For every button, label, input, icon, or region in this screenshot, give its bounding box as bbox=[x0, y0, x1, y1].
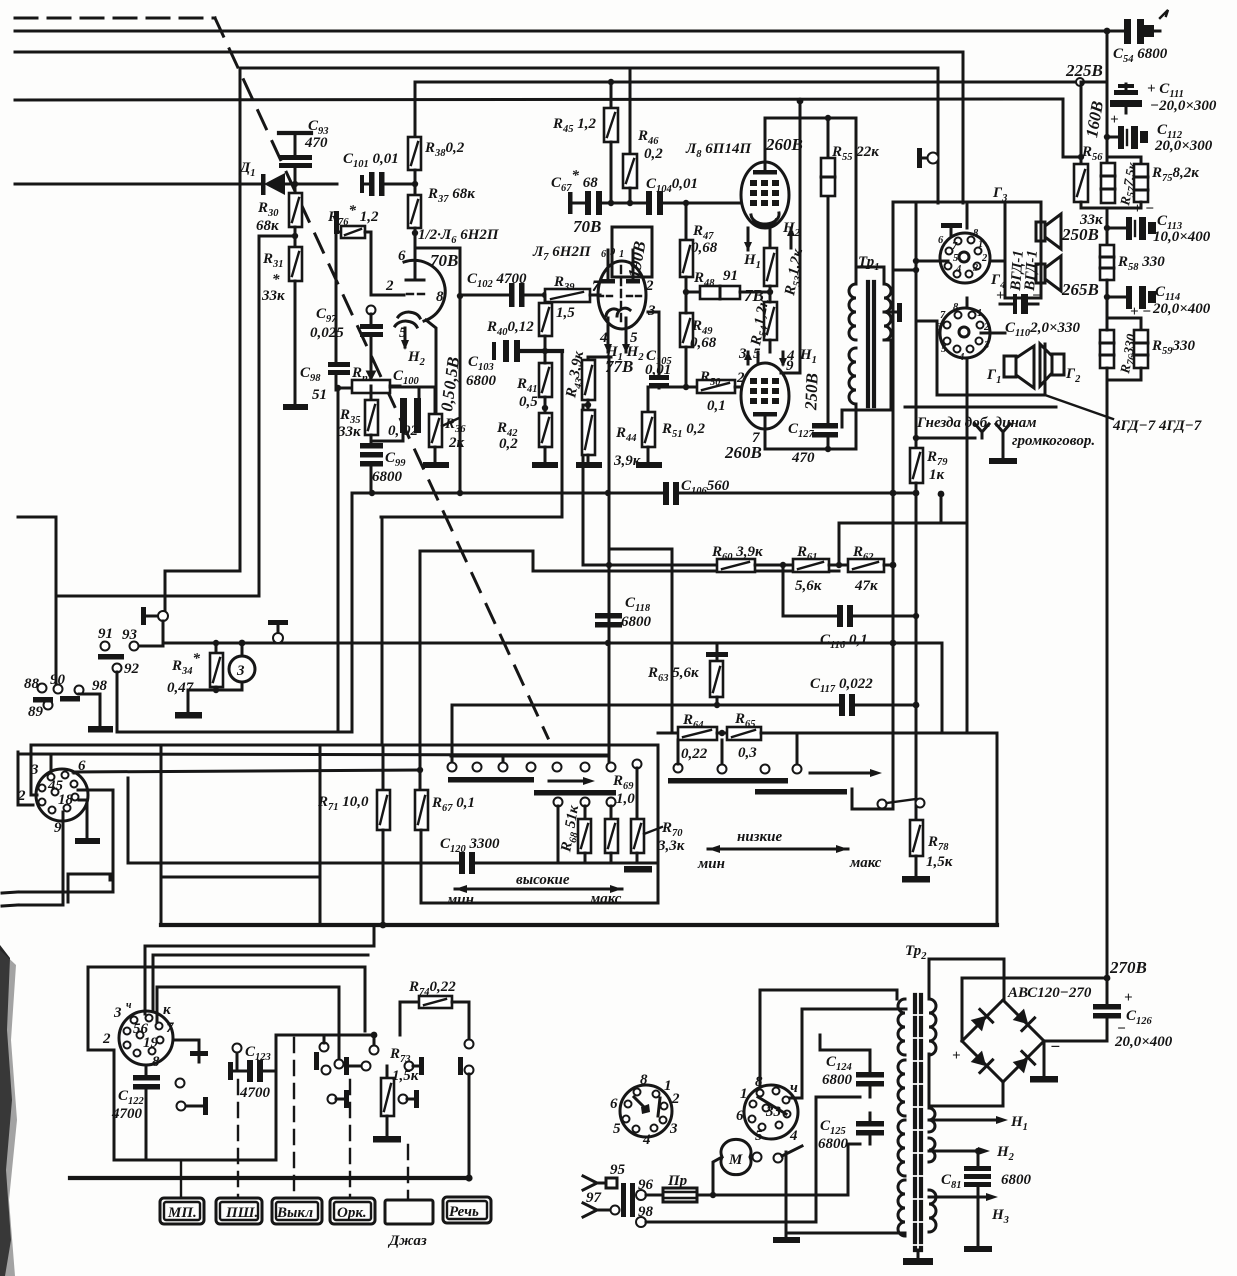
svg-text:1,5: 1,5 bbox=[556, 305, 575, 321]
pointer line 4GD-7 bbox=[905, 406, 1056, 409]
wire staircase y549/y571 bbox=[420, 551, 839, 571]
resistor R47 bbox=[680, 203, 693, 292]
svg-text:3: 3 bbox=[738, 346, 747, 362]
svg-text:0,22: 0,22 bbox=[681, 746, 708, 762]
svg-text:70В: 70В bbox=[573, 217, 601, 236]
svg-text:2: 2 bbox=[981, 253, 988, 264]
wire x161 bbox=[160, 746, 163, 925]
node bbox=[292, 181, 298, 187]
svg-text:ПШ.: ПШ. bbox=[225, 1205, 258, 1221]
svg-text:89: 89 bbox=[28, 704, 44, 720]
svg-text:Пр: Пр bbox=[667, 1173, 688, 1189]
contact 92 bbox=[113, 664, 122, 673]
svg-text:Выкл: Выкл bbox=[276, 1205, 313, 1221]
svg-text:5: 5 bbox=[755, 1128, 763, 1144]
svg-text:47к: 47к bbox=[854, 578, 878, 594]
svg-text:3: 3 bbox=[972, 263, 978, 274]
svg-text:4ГД−7 4ГД−7: 4ГД−7 4ГД−7 bbox=[1112, 418, 1202, 434]
capacitor C67 bbox=[568, 191, 646, 215]
resistor R46 bbox=[623, 68, 637, 203]
capacitor C100 bbox=[372, 387, 435, 441]
capacitor C104 bbox=[646, 191, 741, 215]
svg-text:7: 7 bbox=[592, 279, 600, 295]
wire y523 branch bbox=[839, 522, 967, 525]
transformer Tr1 bbox=[842, 118, 902, 449]
wire y566 R60..R62 bbox=[583, 564, 717, 567]
svg-text:6800: 6800 bbox=[818, 1136, 849, 1152]
svg-text:к: к bbox=[163, 1002, 171, 1018]
wire anode L6 out bbox=[415, 248, 460, 296]
Rech contacts bbox=[458, 1040, 474, 1179]
svg-text:0,1: 0,1 bbox=[707, 398, 726, 414]
wire y732 bbox=[117, 731, 352, 734]
resistor R43 bbox=[582, 357, 611, 410]
svg-text:5: 5 bbox=[399, 325, 407, 341]
svg-text:МП.: МП. bbox=[167, 1205, 197, 1221]
wires inside speaker box bbox=[966, 203, 969, 228]
capacitor C127 bbox=[812, 118, 838, 452]
arrow right bbox=[810, 769, 882, 777]
svg-text:470: 470 bbox=[304, 135, 328, 151]
svg-text:68к: 68к bbox=[256, 218, 279, 234]
capacitor C103 bbox=[492, 340, 562, 362]
svg-text:4: 4 bbox=[955, 264, 961, 275]
wire x421 to bottom bbox=[420, 863, 423, 903]
resistor R50 bbox=[683, 380, 741, 393]
svg-text:0,01: 0,01 bbox=[645, 362, 671, 378]
resistor R68 + contacts bbox=[554, 798, 563, 864]
svg-text:20,0×400: 20,0×400 bbox=[1152, 301, 1211, 317]
svg-text:6: 6 bbox=[398, 248, 406, 264]
capacitor C125 bbox=[856, 1113, 884, 1144]
wire x609 down from staircase bbox=[608, 357, 611, 756]
resistor R61 bbox=[793, 559, 848, 572]
svg-text:5: 5 bbox=[753, 346, 761, 362]
svg-text:2к: 2к bbox=[448, 435, 465, 451]
svg-text:470: 470 bbox=[791, 450, 815, 466]
svg-text:8: 8 bbox=[436, 289, 444, 305]
svg-text:8: 8 bbox=[640, 1072, 648, 1088]
resistor R53 bbox=[764, 248, 777, 292]
contacts 88 89 90 98 bbox=[38, 684, 47, 693]
svg-text:6800: 6800 bbox=[466, 373, 497, 389]
svg-text:6800: 6800 bbox=[1001, 1172, 1032, 1188]
svg-text:−: − bbox=[1032, 288, 1041, 304]
resistor R75 parallel bbox=[1107, 157, 1148, 208]
svg-text:макс: макс bbox=[589, 891, 622, 907]
svg-text:9: 9 bbox=[786, 358, 794, 374]
svg-text:1,5к: 1,5к bbox=[926, 854, 953, 870]
svg-text:ВГД-1: ВГД-1 bbox=[1022, 250, 1041, 293]
resistor R76 trim bbox=[334, 211, 371, 295]
buttons bbox=[160, 1198, 204, 1224]
svg-text:Джаз: Джаз bbox=[387, 1233, 427, 1249]
capacitor C111 bbox=[1110, 84, 1142, 113]
svg-text:96: 96 bbox=[638, 1177, 654, 1193]
resistor R45 bbox=[604, 79, 618, 203]
svg-text:9: 9 bbox=[610, 247, 616, 258]
ground under R42 bbox=[532, 462, 558, 468]
capacitor C97 bbox=[360, 306, 383, 387]
svg-text:М: М bbox=[728, 1152, 743, 1168]
resistor R74 bbox=[400, 996, 469, 1040]
svg-text:250В: 250В bbox=[801, 373, 821, 411]
svg-text:4: 4 bbox=[789, 1128, 798, 1144]
svg-text:3: 3 bbox=[236, 663, 245, 679]
svg-text:низкие: низкие bbox=[737, 829, 782, 845]
box right edge and bottom bbox=[996, 733, 999, 925]
svg-text:3: 3 bbox=[983, 340, 989, 351]
capacitor C102 bbox=[460, 283, 545, 307]
svg-text:10,0×400: 10,0×400 bbox=[1153, 229, 1211, 245]
main bottom wire y1178 bbox=[70, 1176, 469, 1180]
capacitor C118 bbox=[595, 613, 622, 628]
svg-text:265В: 265В bbox=[1061, 280, 1099, 299]
capacitor C110 bbox=[1000, 294, 1038, 314]
wire pin9 to 250V bbox=[781, 372, 800, 375]
svg-text:51: 51 bbox=[312, 387, 327, 403]
svg-text:1: 1 bbox=[664, 1078, 672, 1094]
wire dashed diagonal bbox=[215, 18, 548, 738]
resistor R38 bbox=[408, 137, 421, 195]
svg-text:1: 1 bbox=[619, 249, 624, 260]
svg-text:7: 7 bbox=[166, 1020, 174, 1036]
svg-text:1: 1 bbox=[978, 239, 983, 250]
capacitor C113 bbox=[1104, 217, 1156, 240]
svg-text:0, 02: 0, 02 bbox=[388, 423, 419, 439]
svg-text:8: 8 bbox=[973, 228, 979, 239]
svg-text:4700: 4700 bbox=[111, 1106, 143, 1122]
wire detector line y184 bbox=[15, 183, 262, 186]
svg-text:97: 97 bbox=[586, 1190, 602, 1206]
switch contact with bar bbox=[140, 607, 168, 646]
socket wires bbox=[50, 756, 53, 773]
pins under L8 with arrows bbox=[744, 227, 795, 251]
jack symbol on x938 bbox=[917, 68, 939, 203]
wire bus y82 from R45/R38 bbox=[415, 82, 1080, 138]
wire 225V line bbox=[415, 81, 1080, 84]
wire bus y31 bbox=[15, 30, 1107, 33]
resistor R62 bbox=[848, 559, 893, 572]
jack contact on y643 bbox=[268, 620, 288, 643]
contacts right of socket bbox=[173, 1040, 208, 1062]
svg-text:90: 90 bbox=[50, 672, 66, 688]
speakers VGD-1 top pair bbox=[1036, 214, 1061, 249]
capacitor C122 bbox=[133, 1065, 160, 1160]
resistor R78 bbox=[910, 808, 923, 876]
wire to jacks / R79 bbox=[916, 437, 975, 440]
svg-text:91: 91 bbox=[98, 626, 113, 642]
svg-text:ч: ч bbox=[790, 1080, 798, 1096]
svg-text:4: 4 bbox=[642, 1132, 651, 1148]
socket G3 bbox=[940, 223, 990, 283]
svg-text:2: 2 bbox=[385, 278, 394, 294]
transformer Tr2 bbox=[898, 995, 936, 1258]
capacitor C116 bbox=[783, 565, 919, 627]
svg-text:макс: макс bbox=[849, 855, 882, 871]
resistor R44 bbox=[582, 410, 595, 462]
svg-text:20,0×400: 20,0×400 bbox=[1114, 1034, 1173, 1050]
resistor R48 bbox=[686, 286, 755, 299]
svg-text:260В: 260В bbox=[724, 443, 762, 462]
svg-text:высокие: высокие bbox=[516, 872, 570, 888]
pins 4,5 arrows H1 H2 bbox=[604, 330, 630, 353]
svg-text:0,5: 0,5 bbox=[519, 394, 538, 410]
ground on y863 bbox=[624, 866, 652, 873]
svg-text:93: 93 bbox=[122, 627, 138, 643]
wire y863 bbox=[127, 778, 130, 863]
wire bus y99 bbox=[15, 99, 1063, 157]
node R30/R31 bbox=[292, 233, 298, 239]
svg-text:70В: 70В bbox=[430, 251, 458, 270]
resistor R59 bbox=[1107, 330, 1148, 380]
resistor R76s parallel pair with R59 bbox=[1100, 318, 1141, 380]
svg-text:0,3: 0,3 bbox=[738, 745, 757, 761]
svg-text:98: 98 bbox=[638, 1204, 654, 1220]
svg-text:6800: 6800 bbox=[372, 469, 403, 485]
resistor R30 bbox=[289, 184, 302, 247]
svg-text:0,2: 0,2 bbox=[644, 146, 663, 162]
resistor R36 bbox=[429, 387, 459, 462]
speaker G1 bbox=[1004, 346, 1034, 388]
svg-text:4: 4 bbox=[958, 352, 964, 363]
triode L7 bbox=[598, 250, 646, 330]
treble box bottom bbox=[421, 902, 658, 905]
svg-text:19: 19 bbox=[143, 1035, 159, 1051]
box top y733 with R64 R65 bbox=[658, 732, 678, 735]
wire x916 lower bbox=[915, 493, 918, 820]
resistor R55 bbox=[821, 158, 835, 196]
svg-text:6800: 6800 bbox=[822, 1072, 853, 1088]
wire bus y52 bbox=[15, 52, 963, 203]
svg-text:+: + bbox=[1124, 990, 1133, 1006]
resistor R57 inline bbox=[1101, 163, 1115, 203]
svg-text:2: 2 bbox=[645, 278, 654, 294]
svg-text:1к: 1к bbox=[929, 467, 945, 483]
pentode L9 output bbox=[741, 363, 789, 429]
contacts 91 93 bbox=[101, 642, 110, 651]
resistor R67 bbox=[415, 552, 428, 863]
capacitor C98 bbox=[328, 362, 350, 390]
switch contacts bass bbox=[674, 764, 683, 773]
resistor R35 bbox=[365, 386, 378, 443]
wire L8 anode up bbox=[765, 118, 856, 162]
lower contacts bbox=[878, 800, 887, 809]
wire x560 down bbox=[561, 351, 564, 517]
wire step left top bbox=[18, 517, 56, 683]
svg-text:5: 5 bbox=[953, 253, 958, 264]
resistor R56 bbox=[1063, 157, 1107, 208]
capacitor C126 bbox=[1044, 978, 1121, 1041]
bottom left SOCKET bbox=[36, 769, 88, 821]
wire y877 bbox=[161, 876, 320, 879]
svg-text:6: 6 bbox=[601, 249, 607, 260]
nested top lines bbox=[145, 925, 374, 1014]
svg-text:0,025: 0,025 bbox=[310, 325, 344, 341]
rectifier bridge bbox=[929, 959, 1044, 1106]
wire y493 main bbox=[352, 492, 663, 495]
svg-text:мин.: мин. bbox=[446, 892, 478, 908]
svg-text:0,68: 0,68 bbox=[690, 335, 717, 351]
ground under R36 bbox=[423, 462, 449, 468]
fuse Pr bbox=[663, 1188, 697, 1202]
svg-text:20,0×300: 20,0×300 bbox=[1154, 138, 1213, 154]
resistor R79 bbox=[910, 409, 923, 705]
jack forks bbox=[975, 424, 1010, 458]
resistor R40 bbox=[539, 295, 552, 350]
svg-text:+: + bbox=[1110, 112, 1119, 128]
ground R34 bbox=[188, 690, 216, 712]
svg-text:1,5к: 1,5к bbox=[392, 1068, 419, 1084]
svg-text:8: 8 bbox=[953, 302, 959, 313]
resistor R37 bbox=[408, 195, 421, 253]
svg-text:92: 92 bbox=[124, 661, 140, 677]
svg-text:2: 2 bbox=[983, 322, 990, 333]
svg-text:260В: 260В bbox=[765, 135, 803, 154]
svg-text:3: 3 bbox=[113, 1005, 122, 1021]
socket bottom-left block bbox=[119, 1011, 173, 1065]
wire dashed top bus bbox=[15, 17, 215, 20]
wire y925 thick bbox=[161, 923, 997, 927]
box bbox=[916, 202, 1041, 330]
potentiometer Rn bbox=[338, 372, 400, 393]
diode D1 bbox=[261, 173, 337, 195]
bars bbox=[448, 777, 534, 783]
wire R31 branch bbox=[259, 236, 295, 596]
svg-text:Орк.: Орк. bbox=[337, 1205, 367, 1221]
svg-text:мин: мин bbox=[697, 856, 725, 872]
pentode L8 top bbox=[741, 162, 789, 228]
svg-text:6: 6 bbox=[936, 322, 942, 333]
speaker G2 bbox=[1040, 344, 1064, 386]
svg-text:5: 5 bbox=[613, 1121, 621, 1137]
svg-text:6: 6 bbox=[938, 235, 944, 246]
wire x1107 main bbox=[1106, 31, 1109, 163]
wire y595 bbox=[56, 595, 259, 598]
svg-text:270В: 270В bbox=[1109, 958, 1147, 977]
switch top line y756 contacts bbox=[451, 755, 609, 758]
svg-text:33к: 33к bbox=[337, 424, 361, 440]
wire y705 bbox=[452, 704, 839, 707]
pins above output tube bbox=[744, 351, 787, 367]
triode L6 (half) bbox=[390, 253, 445, 350]
wire y646 long bbox=[163, 643, 942, 733]
capacitor C112 bbox=[1104, 126, 1148, 149]
svg-text:+ −: + − bbox=[1133, 201, 1154, 217]
wire y517 bbox=[381, 516, 562, 519]
ground under R31 bbox=[283, 404, 308, 410]
svg-text:Речь: Речь bbox=[449, 1204, 479, 1220]
svg-text:5: 5 bbox=[941, 344, 946, 355]
svg-text:5,6к: 5,6к bbox=[795, 578, 822, 594]
svg-text:250В: 250В bbox=[1061, 225, 1099, 244]
svg-text:1: 1 bbox=[977, 308, 982, 319]
svg-text:225В: 225В bbox=[1065, 61, 1103, 80]
capacitor C99 bbox=[360, 443, 383, 493]
voltage selector socket bbox=[620, 1085, 672, 1137]
svg-text:3,3к: 3,3к bbox=[657, 838, 685, 854]
bridge output bbox=[962, 978, 1107, 1041]
capacitor C114 bbox=[1104, 286, 1156, 309]
capacitor C106 bbox=[663, 482, 679, 505]
svg-text:0,47: 0,47 bbox=[167, 680, 194, 696]
wire x338 down to switch area bbox=[337, 390, 340, 732]
resistor R54 bbox=[764, 292, 777, 352]
svg-text:1,0: 1,0 bbox=[616, 791, 635, 807]
capacitor C105 bbox=[648, 312, 669, 388]
motor M bbox=[721, 1139, 751, 1174]
wire box top y68 / left frame x238 bbox=[240, 68, 938, 571]
H taps bbox=[929, 1114, 1028, 1133]
resistor R64 bbox=[678, 727, 727, 740]
svg-text:−20,0×300: −20,0×300 bbox=[1150, 98, 1217, 114]
resistor R39 bbox=[545, 289, 600, 302]
svg-text:0,2: 0,2 bbox=[499, 436, 518, 452]
resistor R69v bbox=[605, 798, 618, 864]
svg-text:+: + bbox=[952, 1048, 961, 1064]
svg-text:91: 91 bbox=[723, 268, 738, 284]
socket to transformer loops bbox=[760, 990, 897, 1085]
node junction C54 bbox=[1104, 28, 1111, 35]
arrow bbox=[549, 777, 595, 785]
resistor R60 bbox=[717, 559, 793, 572]
meter circle 3 bbox=[216, 640, 255, 690]
svg-text:88: 88 bbox=[24, 676, 40, 692]
svg-text:7: 7 bbox=[952, 241, 958, 252]
wire pin2 input bbox=[371, 294, 390, 297]
resistor R58 inline bbox=[1100, 245, 1114, 280]
resistor R63 with top bar bbox=[706, 643, 728, 705]
ground under R44 bbox=[576, 462, 602, 468]
wire x356 down to y705 bbox=[351, 493, 354, 732]
capacitor C117 bbox=[839, 694, 919, 716]
svg-text:громкоговор.: громкоговор. bbox=[1012, 433, 1095, 449]
wire y814 jog bbox=[319, 746, 322, 925]
capacitor C120 bbox=[459, 852, 475, 874]
wire frame jog to switch bbox=[165, 571, 240, 610]
dashed button links bbox=[180, 1160, 182, 1198]
capacitor C101 bbox=[360, 172, 415, 196]
svg-text:9: 9 bbox=[54, 820, 62, 836]
svg-text:18: 18 bbox=[58, 792, 74, 808]
terminals 95-98 bbox=[583, 1176, 617, 1190]
svg-text:0,5: 0,5 bbox=[437, 389, 459, 413]
wire pin8 down bbox=[426, 320, 436, 414]
capacitor C93 bbox=[279, 133, 312, 184]
190V box bbox=[612, 227, 652, 279]
capacitor C54 bbox=[1107, 10, 1168, 44]
svg-text:7: 7 bbox=[940, 310, 946, 321]
bridge minus to ground bbox=[1043, 1041, 1046, 1076]
capacitor C123 bbox=[228, 1044, 276, 1083]
svg-text:АВС120−270: АВС120−270 bbox=[1007, 985, 1092, 1001]
resistor R42 bbox=[539, 413, 552, 462]
svg-text:8: 8 bbox=[152, 1054, 160, 1070]
resistor R41 bbox=[539, 350, 552, 413]
wire AGC vertical x337 bbox=[335, 234, 338, 362]
svg-text:2: 2 bbox=[102, 1031, 111, 1047]
resistor R70 bbox=[631, 760, 662, 864]
tube socket power bbox=[744, 1085, 798, 1139]
capacitor C124 bbox=[820, 1035, 884, 1097]
svg-text:3: 3 bbox=[30, 762, 39, 778]
motor switch bbox=[753, 1153, 762, 1162]
svg-text:33: 33 bbox=[765, 1104, 782, 1120]
R73 block bbox=[344, 1057, 371, 1075]
wire x893 long bbox=[892, 203, 895, 805]
svg-text:2: 2 bbox=[17, 788, 26, 804]
resistor R49 bbox=[680, 292, 693, 387]
